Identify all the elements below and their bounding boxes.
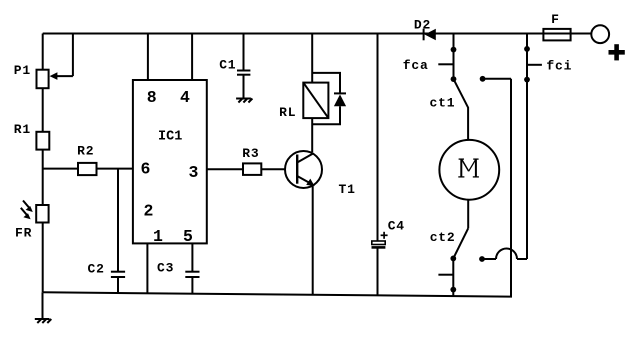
- IC IC1 (timer) box: [133, 80, 207, 243]
- contact ct1 blade: [454, 79, 469, 140]
- relay coil RL: [303, 83, 328, 119]
- svg-text:fca: fca: [403, 58, 429, 73]
- svg-text:T1: T1: [339, 182, 356, 197]
- wire bottom rail: [43, 79, 511, 297]
- svg-text:R2: R2: [77, 143, 94, 158]
- label M motor: [458, 159, 479, 177]
- wire motor bottom lead: [467, 200, 469, 229]
- svg-text:4: 4: [180, 88, 190, 107]
- svg-text:6: 6: [141, 160, 151, 179]
- svg-text:C3: C3: [157, 260, 174, 275]
- ground (at C1): [236, 99, 252, 103]
- wire pin3 to R3: [207, 168, 243, 170]
- contact ct2 blade: [453, 228, 468, 258]
- resistor R3: [243, 163, 261, 175]
- svg-text:fci: fci: [546, 58, 572, 73]
- resistor R2: [78, 163, 97, 175]
- capacitor C4 electrolytic: [372, 34, 388, 296]
- svg-text:2: 2: [144, 201, 154, 220]
- svg-text:IC1: IC1: [158, 130, 182, 145]
- potentiometer P1: [37, 34, 73, 89]
- svg-text:3: 3: [189, 163, 199, 182]
- terminal +: [591, 25, 609, 43]
- switch fca: [438, 34, 456, 83]
- svg-text:D2: D2: [414, 17, 431, 32]
- wire pin 1: [146, 243, 148, 293]
- wire node pin6 / R2 row: [43, 168, 133, 170]
- wire left vertical: [42, 34, 44, 293]
- svg-text:P1: P1: [14, 63, 31, 78]
- svg-text:RL: RL: [279, 105, 296, 120]
- svg-text:1: 1: [153, 227, 163, 246]
- wire RL branch from top rail: [311, 34, 313, 83]
- svg-text:C1: C1: [219, 58, 236, 73]
- photoresistor FR: [21, 201, 49, 223]
- wire emitter down: [312, 185, 314, 295]
- wire pin 8: [147, 34, 149, 81]
- svg-text:F: F: [551, 12, 560, 27]
- svg-text:ct1: ct1: [430, 95, 456, 110]
- svg-text:8: 8: [147, 88, 157, 107]
- svg-text:FR: FR: [15, 225, 32, 240]
- diode D1 (flyback across RL): [312, 73, 346, 124]
- switch fci: [524, 34, 542, 260]
- capacitor C1: [237, 34, 250, 99]
- wire R3 to base: [261, 168, 297, 170]
- node ct2 right contact with wire hop: [479, 249, 527, 262]
- resistor R1: [36, 132, 49, 150]
- capacitor C2: [111, 169, 125, 294]
- svg-text:R1: R1: [14, 122, 31, 137]
- svg-text:C2: C2: [88, 262, 105, 277]
- fuse F: [543, 29, 570, 41]
- wire top rail: [43, 33, 591, 35]
- ground (main, bottom-left): [35, 292, 52, 323]
- motor M: [439, 140, 499, 200]
- switch ct2 lower: [438, 256, 456, 297]
- diode D2: [424, 29, 436, 41]
- capacitor C3: [185, 243, 199, 293]
- svg-text:ct2: ct2: [430, 230, 456, 245]
- node ct1 right contact: [480, 76, 511, 82]
- plus sign: [609, 44, 625, 60]
- wire relay bottom to collector: [311, 118, 313, 152]
- svg-text:C4: C4: [388, 219, 405, 234]
- transistor T1: [285, 151, 322, 188]
- svg-text:5: 5: [183, 227, 193, 246]
- wire pin 4: [191, 34, 193, 81]
- svg-text:R3: R3: [242, 146, 259, 161]
